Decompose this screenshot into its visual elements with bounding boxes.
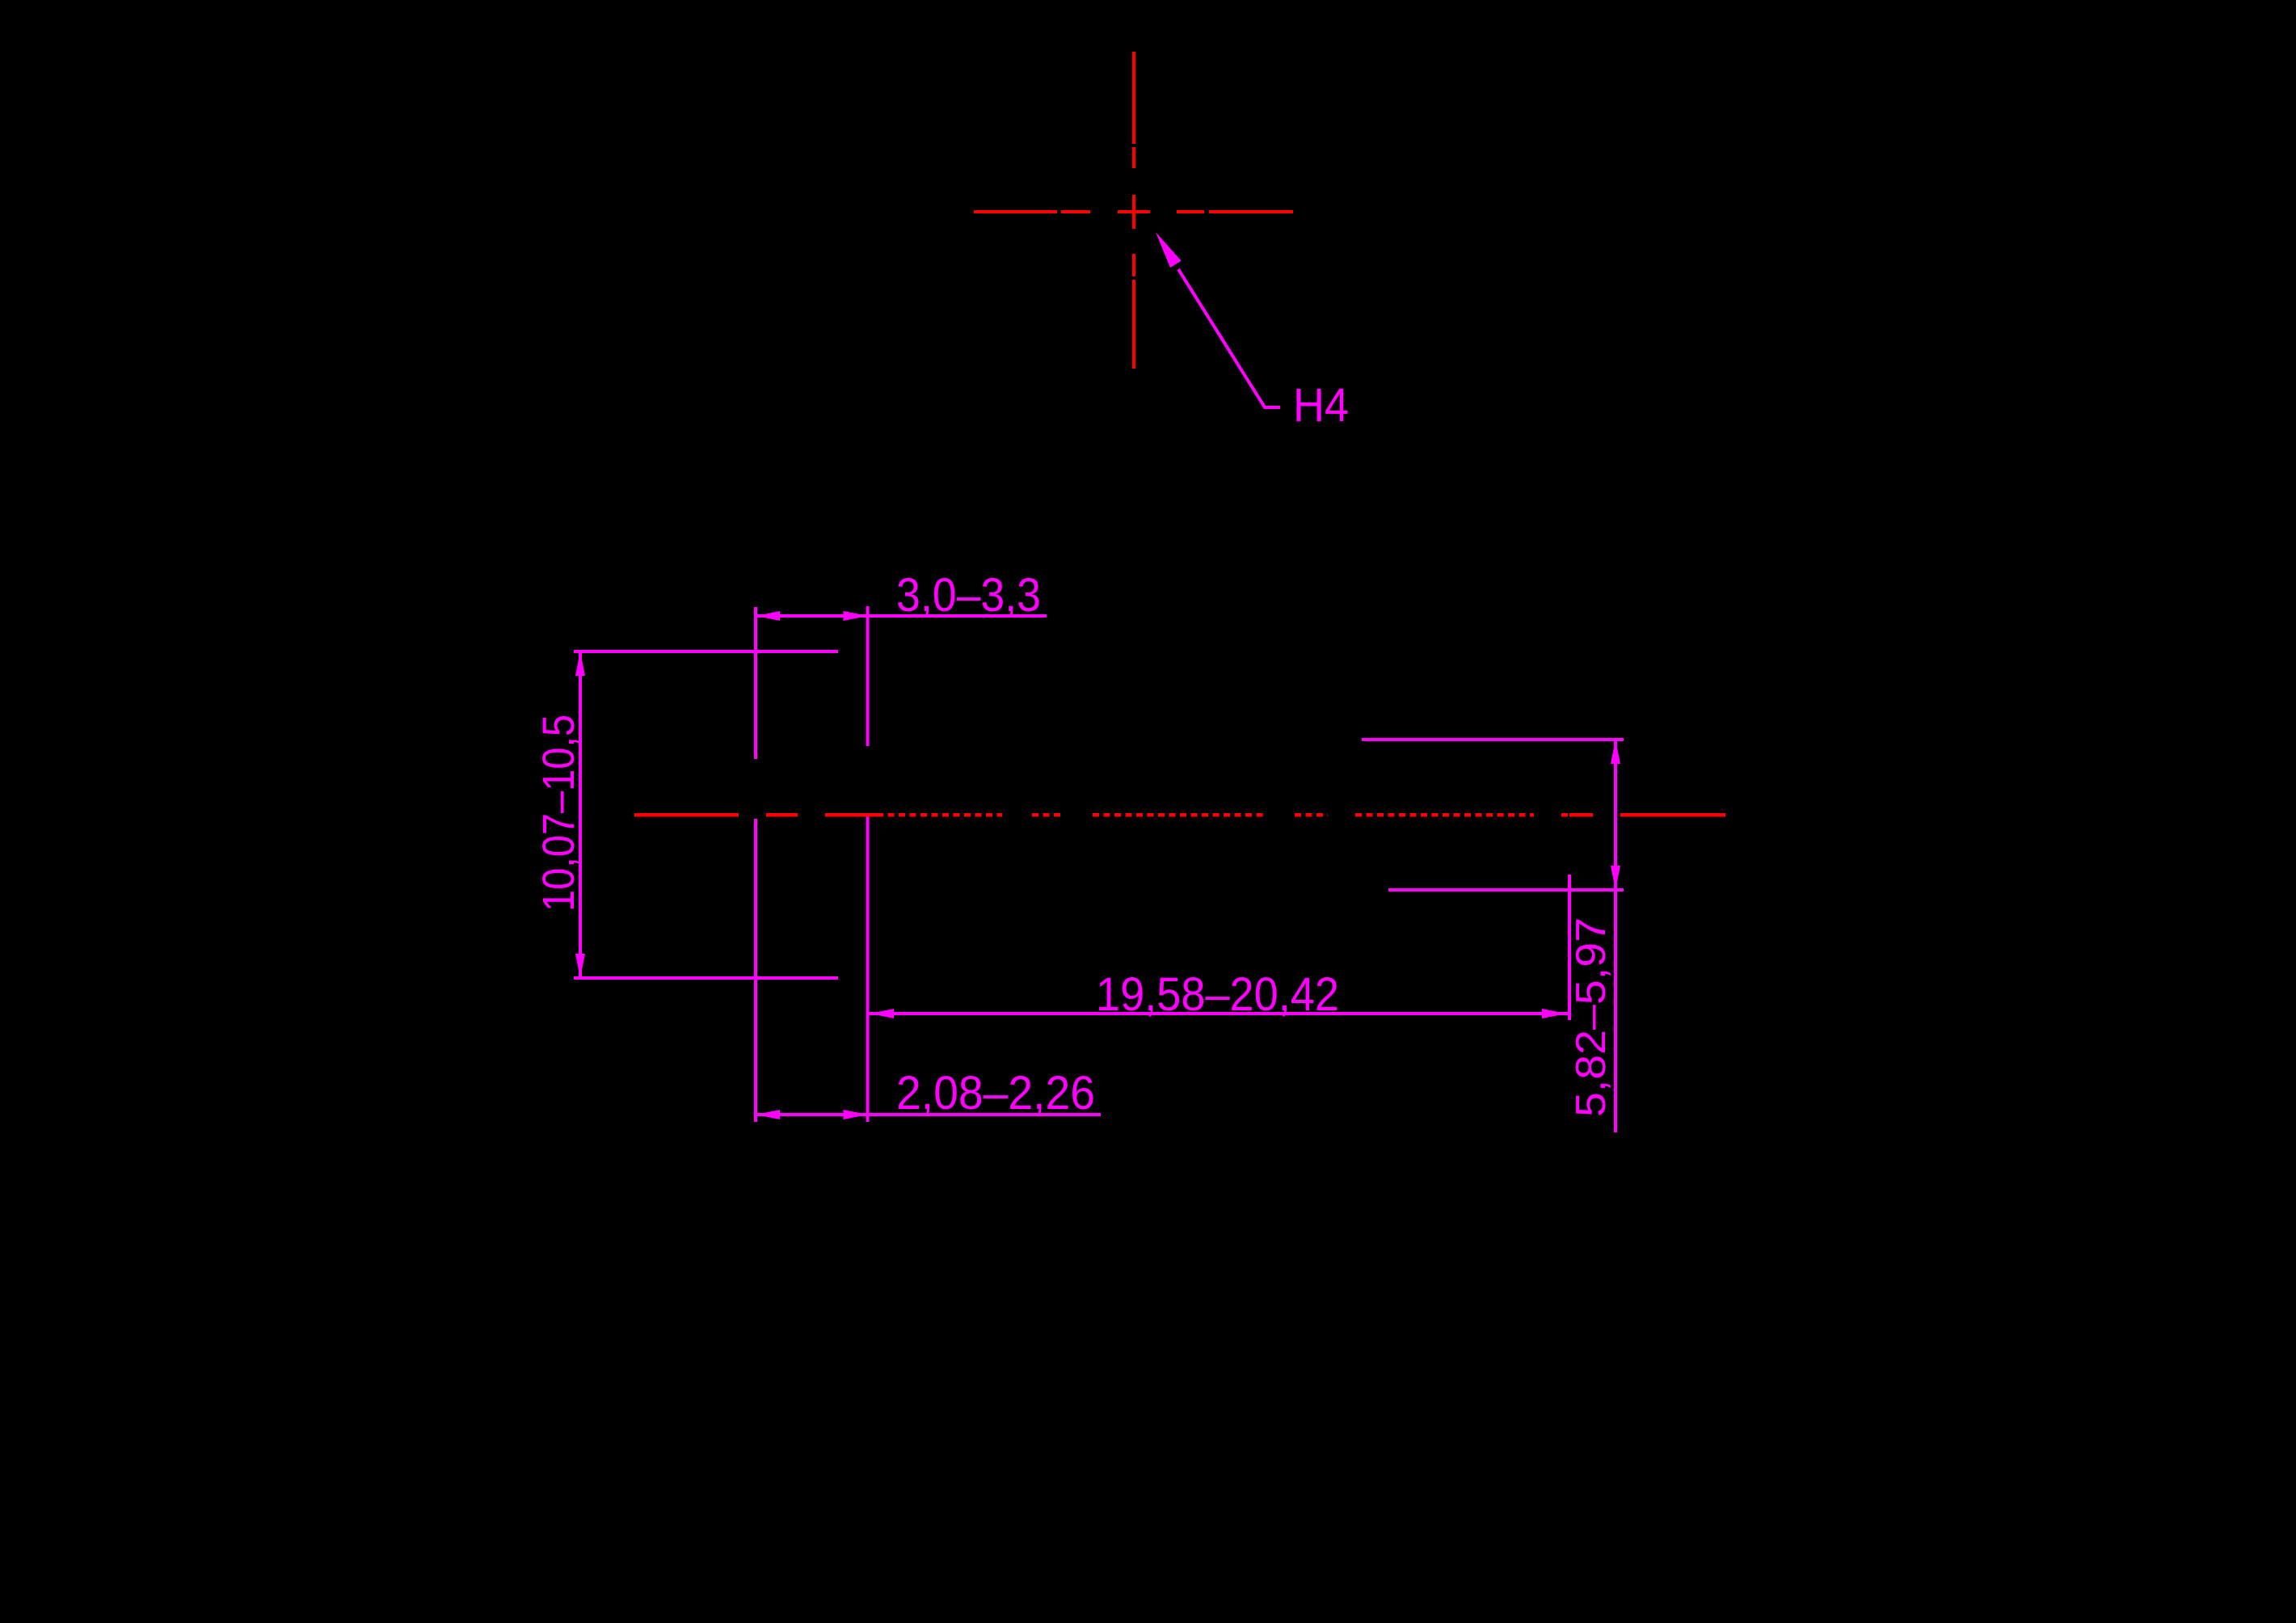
dimension 5.82-5.97 arrows — [1611, 740, 1620, 890]
svg-text:10,07–10,5: 10,07–10,5 — [533, 715, 583, 912]
centerline main axis (red) — [634, 813, 1725, 817]
svg-text:2,08–2,26: 2,08–2,26 — [896, 1067, 1095, 1119]
wire object line bottom right — [1388, 888, 1624, 892]
dimension 19.58-20.42 arrows — [870, 1009, 1566, 1018]
wire object line top right — [1362, 738, 1624, 741]
leader arrow H4 — [1156, 232, 1182, 268]
svg-text:3,0–3,3: 3,0–3,3 — [896, 569, 1041, 622]
dimension 10.07-10.5 line — [579, 651, 582, 978]
wire extension line left (x=935) — [754, 607, 757, 1122]
dimension 19.58-20.42 right extension — [1568, 875, 1571, 1020]
svg-text:19,58–20,42: 19,58–20,42 — [1096, 968, 1339, 1021]
dimension 2.08-2.26 arrows — [756, 1110, 868, 1119]
svg-text:H4: H4 — [1293, 379, 1349, 432]
dimension 5.82-5.97 line — [1614, 740, 1617, 1132]
wire extension line right (x=1073.5) — [866, 606, 870, 1122]
dimension 10.07-10.5 arrows — [575, 651, 585, 978]
dimension 19.58-20.42 line — [868, 1012, 1568, 1015]
dimension 10.07-10.5 bottom extension — [574, 976, 838, 980]
node H4 centerline cross horizontal — [974, 210, 1293, 213]
node H4 centerline cross vertical — [1132, 52, 1135, 369]
dimension 3.0-3.3 line — [756, 614, 1047, 618]
dimension 3.0-3.3 arrows — [756, 611, 868, 621]
dimension 2.08-2.26 line — [756, 1113, 1101, 1116]
svg-text:5,82–5,97: 5,82–5,97 — [1568, 917, 1615, 1117]
dimension 10.07-10.5 top extension — [574, 650, 838, 653]
wire leader line H4 — [1178, 269, 1280, 407]
